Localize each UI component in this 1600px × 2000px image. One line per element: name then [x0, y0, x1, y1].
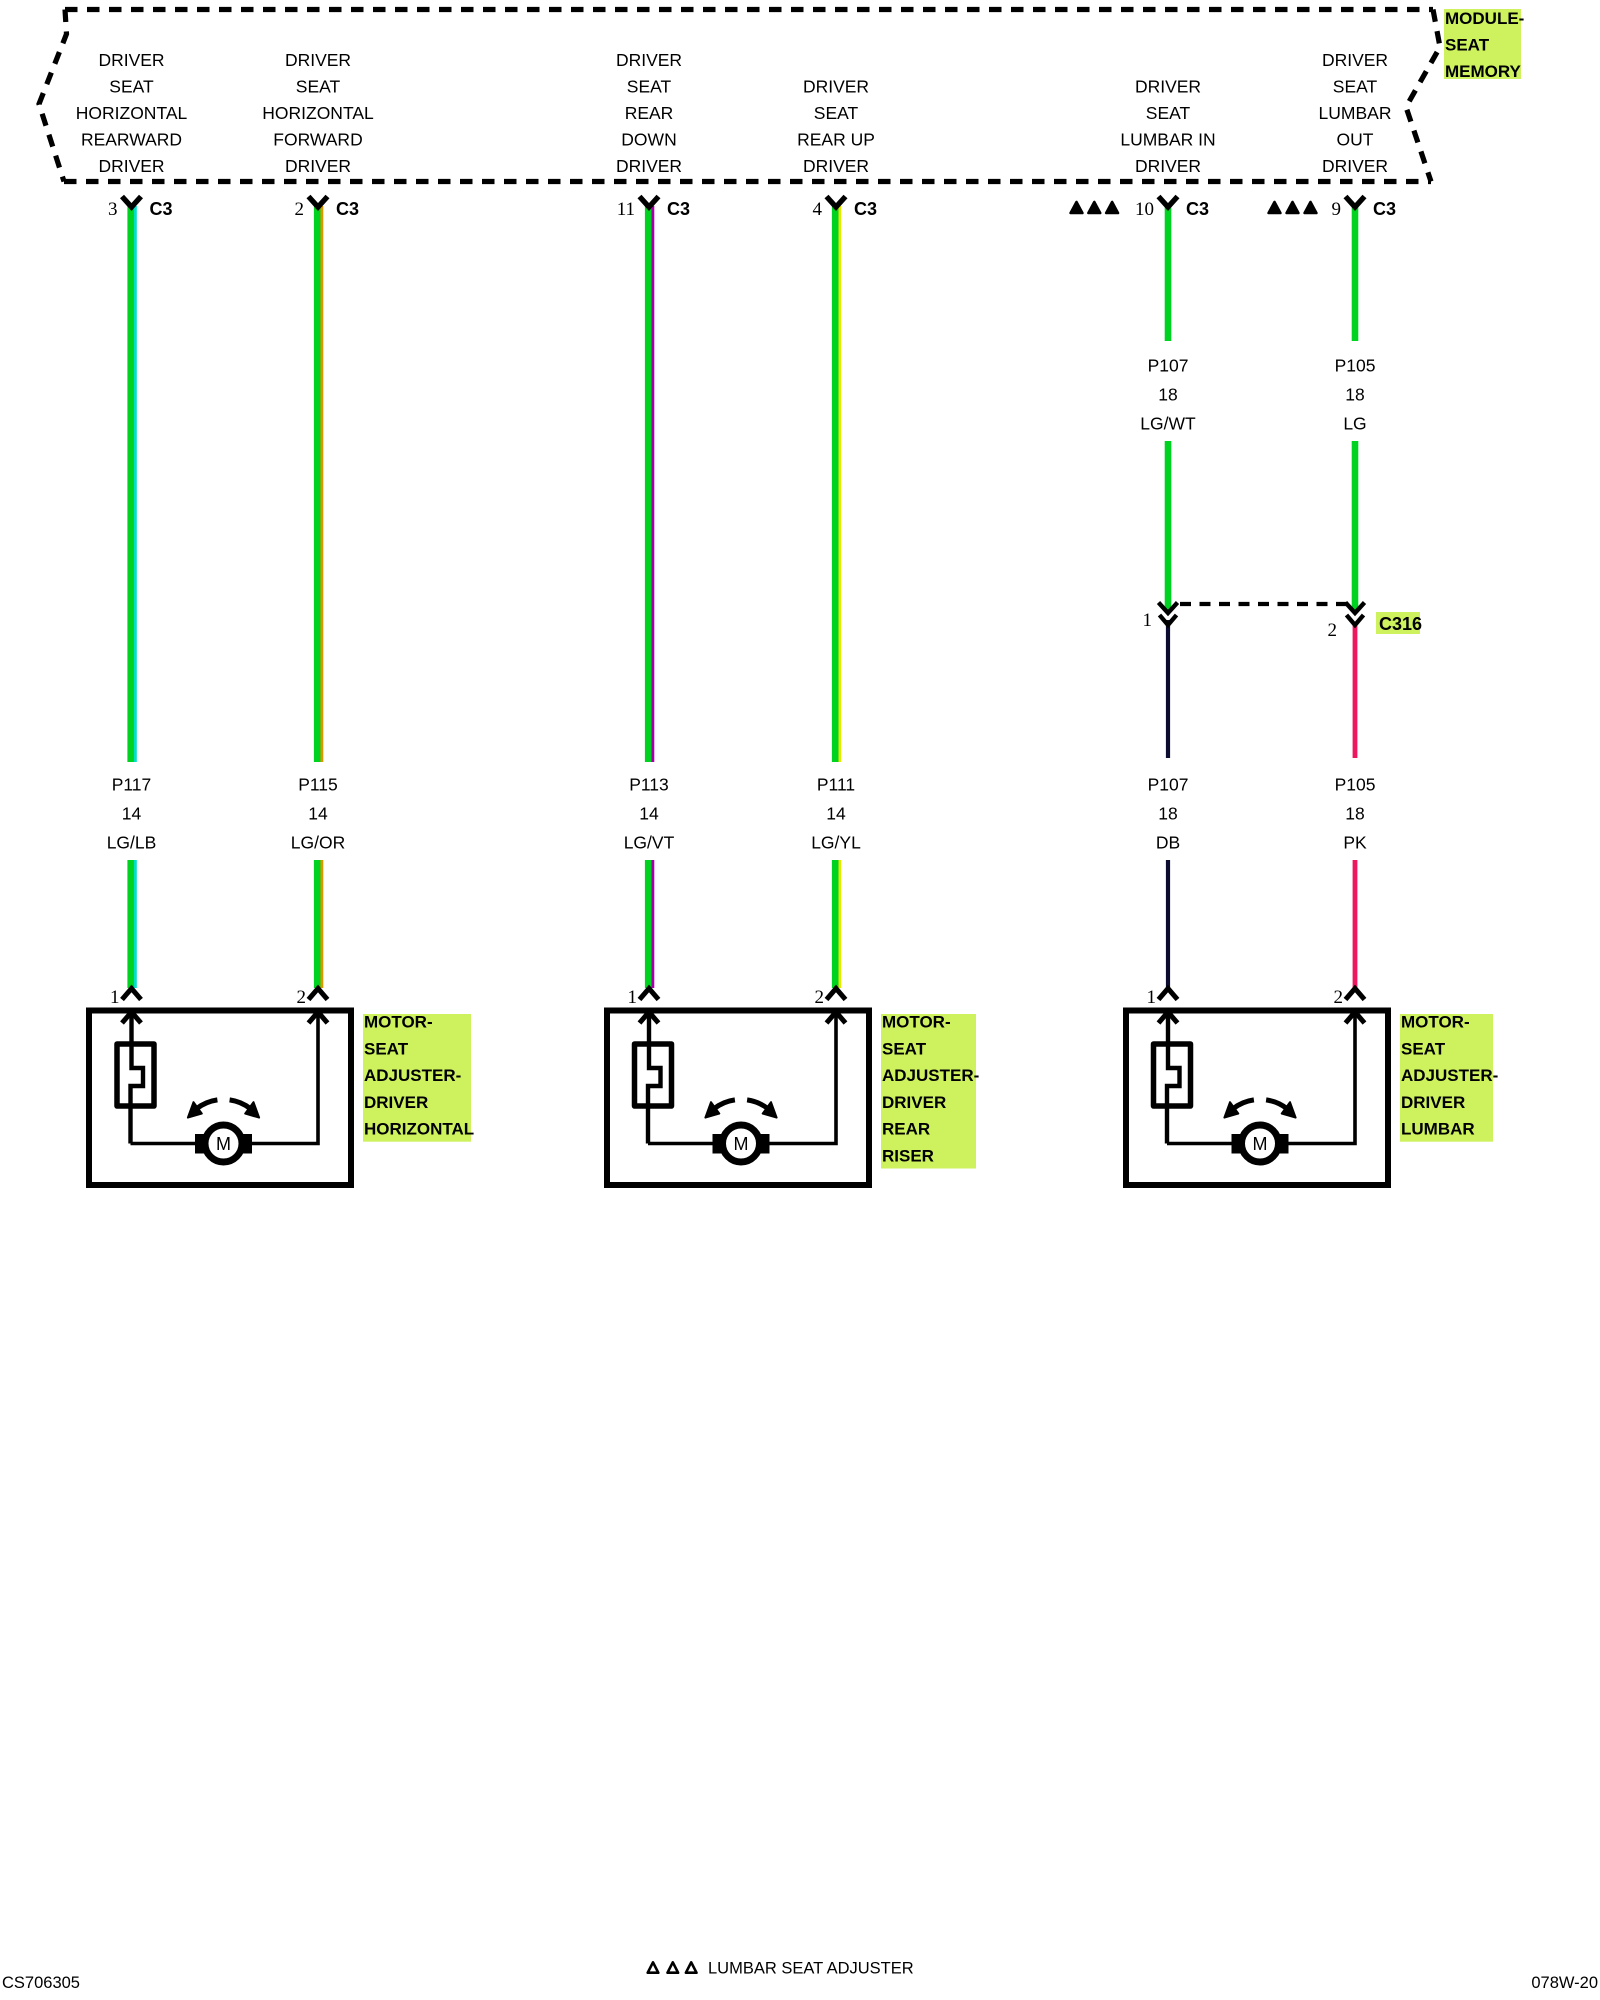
svg-text:9: 9	[1332, 199, 1342, 220]
svg-text:14: 14	[308, 804, 328, 824]
svg-text:MODULE-: MODULE-	[1445, 9, 1524, 28]
connector C316 dashed tie line	[1180, 602, 1348, 606]
svg-text:REAR UP: REAR UP	[797, 130, 875, 150]
svg-text:2: 2	[815, 987, 825, 1008]
label: wire P107 18 DB	[1148, 775, 1189, 853]
rotation arrows above motor M1	[188, 1100, 259, 1118]
svg-text:DRIVER: DRIVER	[616, 156, 682, 176]
svg-text:DRIVER: DRIVER	[882, 1093, 946, 1112]
svg-text:LUMBAR: LUMBAR	[1319, 103, 1392, 123]
label: MOTOR-SEAT ADJUSTER-DRIVER HORIZONTAL	[363, 1013, 474, 1142]
wire: M1 internal, bottom rail to motor	[131, 1142, 196, 1146]
svg-text:DRIVER: DRIVER	[98, 156, 164, 176]
wire: M3 internal, bottom rail to motor	[1167, 1142, 1232, 1146]
connector C3 pin 3	[108, 197, 173, 221]
svg-text:FORWARD: FORWARD	[273, 130, 362, 150]
svg-text:LUMBAR IN: LUMBAR IN	[1120, 130, 1215, 150]
svg-text:14: 14	[122, 804, 142, 824]
svg-text:11: 11	[617, 199, 635, 220]
motor armature M3 (circle M with brushes)	[1232, 1125, 1289, 1162]
svg-text:DRIVER: DRIVER	[803, 156, 869, 176]
svg-text:REARWARD: REARWARD	[81, 130, 182, 150]
svg-text:3: 3	[108, 199, 118, 220]
svg-text:ADJUSTER-: ADJUSTER-	[882, 1066, 979, 1085]
svg-text:078W-20: 078W-20	[1531, 1974, 1598, 1992]
svg-text:10: 10	[1135, 199, 1154, 220]
legend marker: lumbar seat adjuster triangles (pin 10)	[1071, 202, 1118, 213]
circuit breaker (inside M3)	[1154, 1044, 1191, 1106]
svg-text:DRIVER: DRIVER	[1401, 1093, 1465, 1112]
connector C3 pin 4	[813, 197, 878, 221]
node: module output "seat lumbar in"	[1120, 77, 1215, 177]
svg-text:18: 18	[1345, 804, 1364, 824]
motor M2: seat adjuster motor box (RISER)	[607, 1011, 869, 1186]
svg-text:REAR: REAR	[625, 103, 674, 123]
wire P111 14 LG/YL lower segment	[832, 860, 841, 988]
svg-text:P115: P115	[298, 775, 338, 795]
wire: M1 internal, pin 1 through circuit breaker	[131, 1011, 144, 1144]
motor M2 pin 2	[815, 987, 846, 1023]
wire: M2 internal, motor to pin 2	[769, 1011, 836, 1144]
svg-text:M: M	[1253, 1134, 1268, 1154]
wire P105 18 LG upper segment	[1352, 206, 1359, 341]
svg-text:DOWN: DOWN	[621, 130, 676, 150]
svg-text:18: 18	[1158, 804, 1177, 824]
wire: M2 internal, pin 1 through circuit breaker	[648, 1011, 661, 1144]
wire: M1 internal, motor to pin 2	[252, 1011, 319, 1144]
svg-text:P111: P111	[817, 775, 855, 795]
label: MODULE-SEAT MEMORY	[1444, 9, 1524, 81]
svg-text:CS706305: CS706305	[2, 1974, 80, 1992]
label: MOTOR-SEAT ADJUSTER-DRIVER LUMBAR	[1400, 1013, 1498, 1142]
wire P107 18 DB lower segment	[1166, 860, 1170, 988]
wire P115 14 LG/OR upper segment	[314, 206, 323, 762]
svg-text:DRIVER: DRIVER	[803, 77, 869, 97]
svg-text:1: 1	[1147, 987, 1157, 1008]
motor M2 pin 1	[628, 987, 659, 1023]
svg-text:HORIZONTAL: HORIZONTAL	[262, 103, 374, 123]
motor M3 pin 1	[1147, 987, 1178, 1023]
svg-text:M: M	[216, 1134, 231, 1154]
svg-text:DB: DB	[1156, 833, 1180, 853]
svg-text:DRIVER: DRIVER	[98, 50, 164, 70]
svg-text:P107: P107	[1148, 775, 1189, 795]
svg-text:SEAT: SEAT	[1333, 77, 1378, 97]
wire P113 14 LG/VT lower segment	[645, 860, 654, 988]
motor M3 pin 2	[1334, 987, 1365, 1023]
svg-text:LUMBAR SEAT ADJUSTER: LUMBAR SEAT ADJUSTER	[708, 1960, 914, 1978]
svg-text:HORIZONTAL: HORIZONTAL	[364, 1120, 474, 1139]
svg-text:1: 1	[110, 987, 120, 1008]
svg-text:SEAT: SEAT	[109, 77, 154, 97]
svg-text:P107: P107	[1148, 356, 1189, 376]
connector C316 pin 2	[1328, 603, 1365, 642]
svg-text:SEAT: SEAT	[1146, 103, 1191, 123]
svg-text:MOTOR-: MOTOR-	[364, 1013, 433, 1032]
svg-text:C316: C316	[1379, 614, 1422, 634]
svg-text:HORIZONTAL: HORIZONTAL	[76, 103, 188, 123]
svg-text:18: 18	[1158, 385, 1177, 405]
svg-text:DRIVER: DRIVER	[616, 50, 682, 70]
svg-text:SEAT: SEAT	[1445, 36, 1490, 55]
svg-text:SEAT: SEAT	[296, 77, 341, 97]
svg-text:C3: C3	[150, 199, 173, 219]
wire: M3 internal, motor to pin 2	[1288, 1011, 1355, 1144]
wire P105 18 LG segment to C316	[1352, 441, 1359, 611]
rotation arrows above motor M2	[705, 1100, 776, 1118]
svg-text:SEAT: SEAT	[627, 77, 672, 97]
wire P117 14 LG/LB upper segment	[127, 206, 136, 762]
connector C3 pin 11	[617, 197, 690, 221]
svg-text:P117: P117	[112, 775, 152, 795]
wire P107 18 LG/WT segment to C316	[1165, 441, 1172, 611]
svg-text:18: 18	[1345, 385, 1364, 405]
svg-text:OUT: OUT	[1337, 130, 1374, 150]
svg-text:ADJUSTER-: ADJUSTER-	[364, 1066, 461, 1085]
wire P105 18 PK lower segment	[1353, 860, 1358, 988]
svg-text:RISER: RISER	[882, 1147, 934, 1166]
svg-text:LG: LG	[1343, 414, 1366, 434]
footer: drawing number CS706305	[2, 1974, 80, 1992]
svg-text:C3: C3	[1186, 199, 1209, 219]
wire P107 18 DB segment below C316	[1166, 620, 1170, 758]
node: module output "seat rear up"	[797, 77, 875, 177]
svg-text:C3: C3	[667, 199, 690, 219]
legend marker: lumbar seat adjuster triangles (pin 9)	[1269, 202, 1317, 213]
circuit breaker (inside M1)	[117, 1044, 154, 1106]
svg-text:SEAT: SEAT	[364, 1039, 409, 1058]
label: connector C316	[1376, 612, 1422, 634]
svg-text:SEAT: SEAT	[814, 103, 859, 123]
label: wire P117 14 LG/LB	[107, 775, 157, 853]
svg-text:LUMBAR: LUMBAR	[1401, 1120, 1475, 1139]
motor armature M1 (circle M with brushes)	[195, 1125, 252, 1162]
svg-text:C3: C3	[1373, 199, 1396, 219]
svg-text:C3: C3	[854, 199, 877, 219]
motor M1 pin 1	[110, 987, 141, 1023]
svg-text:DRIVER: DRIVER	[1322, 156, 1388, 176]
motor M1 pin 2	[297, 987, 328, 1023]
svg-text:SEAT: SEAT	[1401, 1039, 1446, 1058]
motor M3: seat adjuster motor box (LUMBAR)	[1126, 1011, 1388, 1186]
wire P115 14 LG/OR lower segment	[314, 860, 323, 988]
svg-text:PK: PK	[1343, 833, 1367, 853]
svg-text:14: 14	[826, 804, 846, 824]
module U1: MODULE-SEAT MEMORY dashed outline	[39, 10, 1440, 182]
svg-text:1: 1	[628, 987, 638, 1008]
motor armature M2 (circle M with brushes)	[713, 1125, 770, 1162]
wire: M3 internal, pin 1 through circuit breaker	[1167, 1011, 1180, 1144]
svg-text:M: M	[734, 1134, 749, 1154]
svg-text:ADJUSTER-: ADJUSTER-	[1401, 1066, 1498, 1085]
connector C3 pin 9	[1332, 197, 1397, 221]
node: module output "seat horizontal forward"	[262, 50, 374, 176]
svg-text:1: 1	[1143, 610, 1153, 631]
label: wire P107 18 LG/WT	[1140, 356, 1196, 434]
connector C3 pin 2	[295, 197, 360, 221]
motor M1: seat adjuster motor box (HORIZONTAL)	[89, 1011, 351, 1186]
svg-text:P105: P105	[1335, 356, 1376, 376]
svg-text:SEAT: SEAT	[882, 1039, 927, 1058]
svg-text:LG/VT: LG/VT	[624, 833, 675, 853]
label: wire P111 14 LG/YL	[811, 775, 861, 853]
svg-text:DRIVER: DRIVER	[285, 50, 351, 70]
label: wire P105 18 PK	[1335, 775, 1376, 853]
node: module output "seat rear down"	[616, 50, 682, 176]
svg-text:2: 2	[1328, 620, 1338, 641]
node: module output "seat horizontal rearward"	[76, 50, 188, 176]
wire P117 14 LG/LB lower segment	[127, 860, 136, 988]
svg-text:DRIVER: DRIVER	[364, 1093, 428, 1112]
node: module output "seat lumbar out"	[1319, 50, 1392, 176]
svg-text:MOTOR-: MOTOR-	[1401, 1013, 1470, 1032]
svg-text:DRIVER: DRIVER	[285, 156, 351, 176]
footer: page 078W-20	[1531, 1974, 1598, 1992]
svg-text:2: 2	[297, 987, 307, 1008]
label: wire P105 18 LG	[1335, 356, 1376, 434]
svg-text:14: 14	[639, 804, 659, 824]
wire P105 18 PK segment below C316	[1353, 622, 1358, 758]
svg-text:LG/WT: LG/WT	[1140, 414, 1196, 434]
wire P113 14 LG/VT upper segment	[645, 206, 654, 762]
svg-text:DRIVER: DRIVER	[1135, 77, 1201, 97]
label: MOTOR-SEAT ADJUSTER-DRIVER RISER	[881, 1013, 979, 1169]
connector C3 pin 10	[1135, 197, 1209, 221]
svg-text:P113: P113	[629, 775, 669, 795]
svg-text:P105: P105	[1335, 775, 1376, 795]
wire P111 14 LG/YL upper segment	[832, 206, 841, 762]
svg-text:LG/YL: LG/YL	[811, 833, 861, 853]
svg-text:LG/OR: LG/OR	[291, 833, 345, 853]
svg-text:REAR: REAR	[882, 1120, 930, 1139]
label: wire P113 14 LG/VT	[624, 775, 675, 853]
circuit breaker (inside M2)	[635, 1044, 672, 1106]
rotation arrows above motor M3	[1224, 1100, 1295, 1118]
svg-text:MEMORY: MEMORY	[1445, 62, 1522, 81]
svg-text:C3: C3	[336, 199, 359, 219]
svg-text:2: 2	[295, 199, 305, 220]
wire P107 18 LG/WT upper segment	[1165, 206, 1172, 341]
svg-text:4: 4	[813, 199, 823, 220]
svg-text:MOTOR-: MOTOR-	[882, 1013, 951, 1032]
svg-text:DRIVER: DRIVER	[1322, 50, 1388, 70]
wire: M2 internal, bottom rail to motor	[648, 1142, 713, 1146]
svg-text:2: 2	[1334, 987, 1344, 1008]
svg-text:DRIVER: DRIVER	[1135, 156, 1201, 176]
svg-text:LG/LB: LG/LB	[107, 833, 157, 853]
connector C316 pin 1	[1143, 603, 1178, 632]
legend: lumbar seat adjuster note	[648, 1960, 914, 1978]
label: wire P115 14 LG/OR	[291, 775, 345, 853]
